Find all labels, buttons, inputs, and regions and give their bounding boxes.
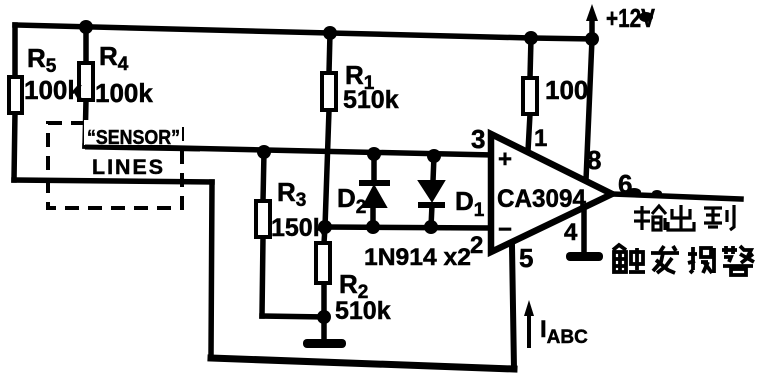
- svg-text:+: +: [498, 146, 512, 173]
- node R2 bottom: [317, 310, 331, 324]
- wire D2 bottom lead: [370, 206, 376, 227]
- chinese text 触发报警 (trigger alarm) hand-drawn: [613, 245, 754, 275]
- wire D2 top lead: [371, 154, 377, 181]
- resistor 100: [523, 78, 537, 114]
- svg-text:100: 100: [545, 75, 588, 105]
- svg-text:6: 6: [618, 169, 632, 199]
- node R4 top: [79, 20, 93, 34]
- wire R3 top lead: [263, 152, 264, 201]
- dashed sensor box: [48, 123, 182, 208]
- scan blobs on output wire: [627, 188, 641, 196]
- wire R3 bottom lead: [262, 237, 263, 316]
- wire pin1 lead from 100 ohm to op-amp: [528, 114, 530, 151]
- wire pin2 rail: [325, 227, 491, 228]
- svg-text:5: 5: [519, 243, 533, 273]
- diode D1 (triangle pointing down, cathode bar below): [418, 181, 445, 205]
- svg-text:2: 2: [470, 232, 483, 259]
- svg-text:R5: R5: [27, 43, 57, 77]
- chinese text 输出到 (output to) hand-drawn: [634, 205, 734, 230]
- node R1 top: [323, 26, 337, 40]
- char 出: [668, 205, 694, 230]
- svg-text:IABC: IABC: [540, 316, 588, 348]
- node D2 bottom: [366, 220, 380, 234]
- op-amp U1 CA3094 triangle: [491, 134, 612, 252]
- resistor R2: [316, 243, 330, 283]
- wire sensor upper line into pin 3: [85, 146, 491, 155]
- wire D1 top lead: [433, 156, 434, 181]
- svg-text:CA3094: CA3094: [497, 185, 586, 213]
- char 到: [704, 205, 734, 230]
- char 报: [688, 247, 714, 273]
- wire left edge R5 top lead: [12, 25, 18, 77]
- wire R1 top lead: [329, 33, 330, 73]
- resistor R1: [322, 73, 336, 110]
- char 触: [613, 245, 645, 272]
- node +12V junction: [585, 32, 599, 46]
- wire D1 bottom lead: [431, 205, 432, 227]
- wire pin8 lead: [586, 39, 592, 180]
- wire sensor loop left vertical: [211, 182, 212, 358]
- svg-text:8: 8: [587, 145, 601, 175]
- svg-text:R3: R3: [277, 177, 306, 211]
- node 100 top: [524, 31, 538, 45]
- node R1-R2 / pin2 rail: [318, 220, 332, 234]
- wire 100 ohm top lead: [530, 38, 531, 78]
- svg-text:150k: 150k: [271, 214, 327, 242]
- wire R1 bottom lead down to pin2 rail: [325, 110, 329, 227]
- ground under R2: [303, 339, 346, 348]
- wire R5 bottom lead to sensor loop: [14, 112, 15, 180]
- diode D2 (cathode bar up, triangle pointing up): [359, 183, 390, 207]
- char 发: [651, 246, 679, 273]
- wire sensor upper line over label: [85, 147, 200, 149]
- wire R4 bottom lead: [85, 100, 86, 146]
- node D2 top: [367, 147, 381, 161]
- char 警: [722, 246, 754, 275]
- +12V arrowhead: [586, 4, 598, 21]
- svg-text:100k: 100k: [95, 78, 153, 108]
- wire R3 bottom horizontal to R2 junction: [262, 316, 324, 317]
- svg-text:D2: D2: [337, 183, 366, 218]
- wire top supply rail: [15, 25, 592, 39]
- svg-text:1: 1: [534, 125, 547, 152]
- wire R4 top lead: [83, 27, 89, 63]
- wire R2 bottom lead: [321, 283, 327, 317]
- svg-text:−: −: [498, 216, 512, 243]
- wire pin4 stub to ground: [581, 211, 587, 252]
- svg-text:D1: D1: [455, 186, 485, 221]
- wire sensor lower line horizontal: [14, 180, 212, 182]
- wire output from pin 6: [612, 194, 741, 199]
- wire pin5 vertical riser: [512, 246, 514, 369]
- svg-text:1N914 x2: 1N914 x2: [364, 244, 471, 271]
- resistor R3: [256, 201, 270, 237]
- wire R2 top lead: [324, 227, 325, 243]
- svg-text:R4: R4: [99, 41, 129, 75]
- label SENSOR: [84, 120, 182, 149]
- svg-text:510k: 510k: [335, 297, 391, 325]
- resistor R5: [9, 77, 22, 113]
- scan blob on V of +12V: [639, 12, 653, 22]
- node D1 bottom: [424, 220, 438, 234]
- node D1 top: [427, 149, 441, 163]
- ground under pin 4: [566, 252, 603, 261]
- svg-text:100k: 100k: [24, 75, 82, 105]
- char 输: [634, 206, 666, 230]
- wire R2 ground stub: [321, 317, 327, 339]
- wire bottom rail: [211, 358, 514, 369]
- resistor R4: [79, 63, 93, 100]
- svg-text:3: 3: [471, 124, 485, 154]
- svg-text:4: 4: [564, 219, 578, 246]
- wire +12V stub: [589, 16, 595, 39]
- svg-text:510k: 510k: [343, 86, 399, 114]
- node R3 / pin3 wire: [257, 145, 271, 159]
- arrow IABC: [524, 300, 534, 348]
- svg-text:LINES: LINES: [92, 156, 165, 179]
